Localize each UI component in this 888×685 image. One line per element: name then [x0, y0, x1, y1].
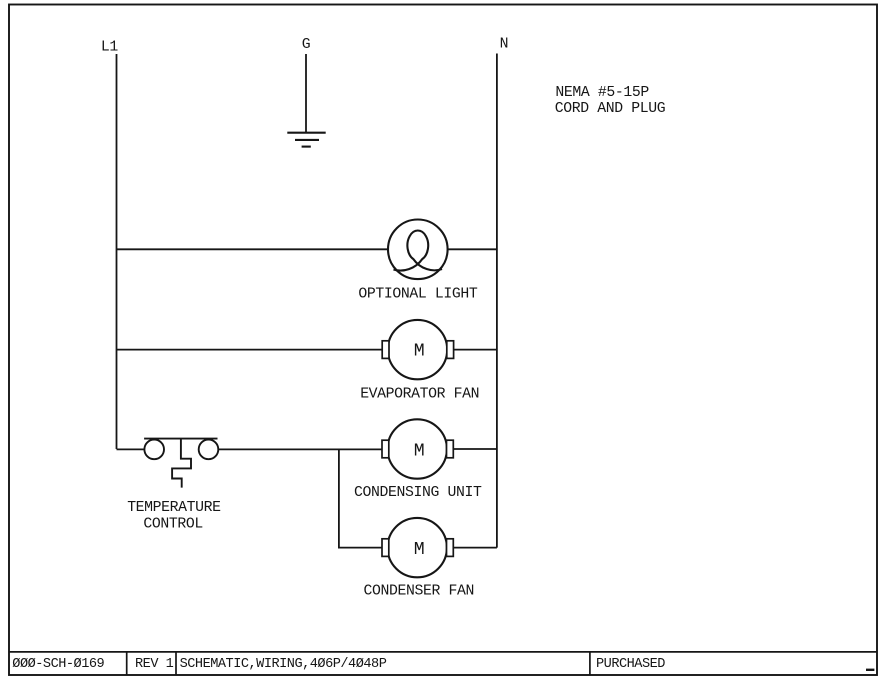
- svg-text:NEMA #5-15P: NEMA #5-15P: [555, 85, 649, 101]
- motor condensing unit: [382, 419, 453, 478]
- wire optional light right: [448, 248, 497, 250]
- wire evaporator fan right: [454, 349, 497, 351]
- svg-text:CORD AND PLUG: CORD AND PLUG: [555, 101, 666, 117]
- title block: [9, 652, 877, 675]
- svg-text:EVAPORATOR FAN: EVAPORATOR FAN: [360, 387, 479, 403]
- wire branch to condenser fan: [339, 449, 382, 547]
- motor evaporator fan: [382, 320, 453, 379]
- svg-text:L1: L1: [101, 40, 118, 56]
- svg-text:M: M: [414, 441, 425, 461]
- svg-text:M: M: [414, 540, 425, 560]
- wire temperature control to condensing unit: [218, 448, 382, 450]
- svg-text:G: G: [302, 37, 311, 53]
- svg-text:ØØØ-SCH-Ø169: ØØØ-SCH-Ø169: [12, 657, 104, 672]
- switch temperature control: [144, 439, 218, 488]
- wire evaporator fan left: [117, 349, 383, 351]
- svg-text:REV 1: REV 1: [135, 657, 174, 672]
- wire optional light left: [117, 248, 389, 250]
- wire temperature control left: [117, 448, 145, 450]
- svg-text:N: N: [500, 36, 509, 52]
- svg-text:PURCHASED: PURCHASED: [596, 657, 665, 672]
- svg-text:M: M: [414, 341, 425, 361]
- wire G: [305, 54, 307, 133]
- fold mark dash: [866, 669, 874, 671]
- svg-text:OPTIONAL LIGHT: OPTIONAL LIGHT: [358, 287, 477, 303]
- svg-text:CONDENSING UNIT: CONDENSING UNIT: [354, 485, 482, 501]
- wire condenser fan right: [453, 547, 497, 549]
- svg-text:SCHEMATIC,WIRING,4Ø6P/4Ø48P: SCHEMATIC,WIRING,4Ø6P/4Ø48P: [180, 657, 387, 672]
- motor condenser fan: [382, 518, 453, 577]
- svg-text:CONTROL: CONTROL: [143, 516, 203, 532]
- ground: [287, 133, 325, 147]
- wire N bus: [496, 54, 498, 548]
- svg-text:CONDENSER FAN: CONDENSER FAN: [364, 583, 475, 599]
- wire condensing unit right: [453, 448, 497, 450]
- wire L1 bus: [116, 54, 118, 449]
- lamp optional light: [388, 220, 448, 280]
- svg-text:TEMPERATURE: TEMPERATURE: [127, 500, 221, 516]
